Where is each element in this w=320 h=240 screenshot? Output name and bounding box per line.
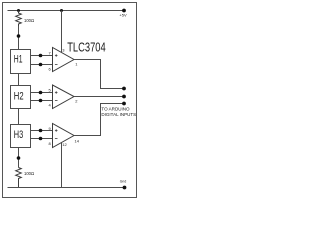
junction on - stub of U1C (39, 137, 43, 141)
junction on rail at pin 3 wire (60, 9, 63, 12)
wire H2 to U1B + input (31, 92, 53, 94)
wire U1B output to terminal (74, 96, 123, 98)
junction node below R1 (17, 34, 21, 38)
wire U1C output to terminal (74, 104, 123, 136)
junction node below H3 (17, 156, 21, 160)
hall sensor H2 (11, 86, 31, 109)
hall sensor H3 (11, 125, 31, 148)
wire pin 12 GND to bottom rail (61, 143, 63, 188)
junction on rail at R1 (17, 9, 20, 12)
hall sensor H1 (11, 50, 31, 74)
wire H3 to U1C - input (31, 138, 53, 140)
svg-text:14: 14 (75, 138, 80, 143)
resistor R2 100 ohm (16, 168, 34, 188)
wire +5V top rail (8, 10, 125, 12)
wire H1 to U1A + input (31, 55, 53, 57)
node output terminal 3 (122, 102, 126, 106)
wire R1 to H1 (18, 26, 20, 50)
wire H1 to U1A - input (31, 64, 53, 66)
junction on - stub of U1B (39, 99, 43, 103)
label TO ARDUINO DIGITAL INPUTS (101, 107, 136, 118)
svg-text:H2: H2 (14, 90, 24, 102)
svg-text:Gnd: Gnd (120, 179, 127, 183)
node output terminal 1 (122, 87, 126, 91)
wire H2 to H3 (18, 109, 20, 125)
wire H2 to U1B - input (31, 100, 53, 102)
svg-text:H1: H1 (14, 54, 23, 66)
junction on + stub of U1B (39, 91, 43, 95)
svg-text:12: 12 (62, 142, 67, 147)
op-amp U1A comparator (53, 48, 75, 72)
svg-text:TLC3704: TLC3704 (67, 41, 106, 55)
op-amp U1B comparator (53, 85, 75, 109)
node +5V terminal (119, 9, 127, 18)
wire Gnd bottom rail (8, 187, 125, 189)
wire H3 to R2 (18, 148, 20, 168)
junction on - stub of U1A (39, 63, 43, 67)
wire pin 3 VDD to +5V rail (61, 11, 63, 53)
svg-text:100Ω: 100Ω (24, 171, 34, 176)
resistor R1 100 ohm (16, 11, 34, 27)
node output terminal 2 (122, 95, 126, 99)
svg-text:100Ω: 100Ω (24, 18, 34, 23)
node Gnd terminal (120, 179, 127, 189)
wire H3 to U1C + input (31, 130, 53, 132)
wire H1 to H2 (18, 74, 20, 86)
svg-text:DIGITAL INPUTS: DIGITAL INPUTS (101, 112, 136, 117)
wire U1A output to terminal (74, 60, 123, 89)
op-amp U1C comparator (53, 124, 75, 148)
svg-text:+5V: +5V (119, 12, 127, 17)
junction on + stub of U1A (39, 54, 43, 58)
svg-text:TO ARDUINO: TO ARDUINO (101, 107, 130, 112)
svg-text:H3: H3 (14, 129, 23, 141)
junction on + stub of U1C (39, 129, 43, 133)
